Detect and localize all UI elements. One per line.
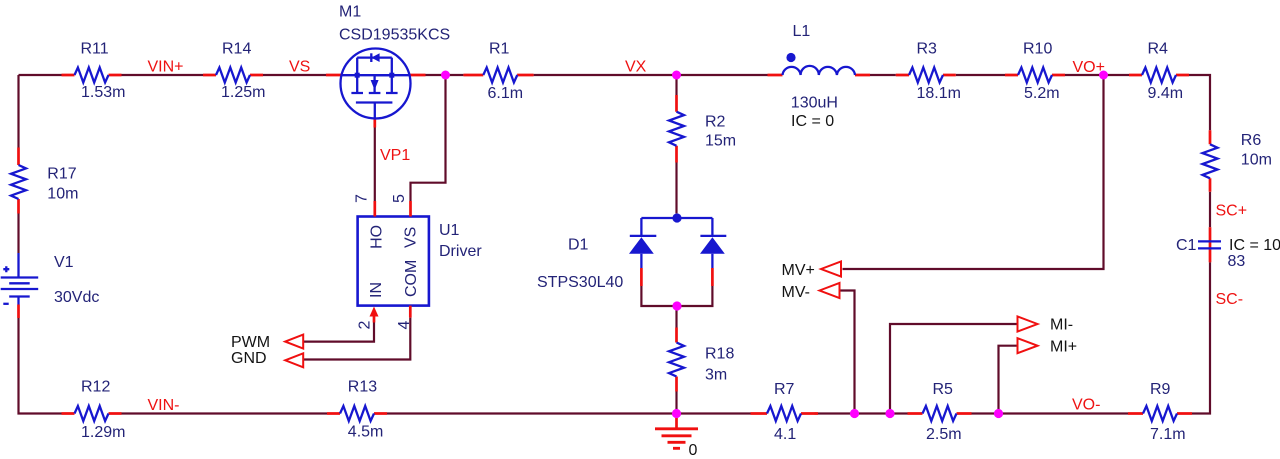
svg-text:HO: HO xyxy=(369,225,386,249)
svg-text:6.1m: 6.1m xyxy=(488,85,524,102)
wire MI- to bottom rail xyxy=(890,324,1018,414)
svg-text:MI+: MI+ xyxy=(1050,339,1077,356)
svg-text:D1: D1 xyxy=(568,237,589,254)
svg-text:10m: 10m xyxy=(1241,152,1272,169)
pin 2 input arrow xyxy=(370,307,379,317)
svg-text:2.5m: 2.5m xyxy=(926,426,962,443)
svg-text:MV+: MV+ xyxy=(782,262,815,279)
svg-text:R7: R7 xyxy=(774,381,795,398)
junction ground node xyxy=(672,409,681,418)
resistor R1 xyxy=(463,41,533,103)
junction MI+ node xyxy=(994,409,1003,418)
wire VP1 gate wire M1 to pin 7 xyxy=(374,128,376,202)
svg-text:VIN-: VIN- xyxy=(148,397,180,414)
wire R5 to R9 xyxy=(972,412,1129,414)
junction MV- node xyxy=(850,409,859,418)
svg-text:R13: R13 xyxy=(348,379,377,396)
svg-text:1.25m: 1.25m xyxy=(221,84,265,101)
wire bottom rail R13 to ground junction xyxy=(387,412,677,414)
svg-text:R17: R17 xyxy=(47,166,76,183)
svg-text:VIN+: VIN+ xyxy=(148,59,184,76)
svg-text:R11: R11 xyxy=(81,41,109,58)
svg-text:IC = 10: IC = 10 xyxy=(1229,237,1280,254)
wire top-left corner xyxy=(19,75,62,148)
wire top rail R14 to M1 xyxy=(263,74,326,76)
svg-text:COM: COM xyxy=(403,260,420,297)
resistor R2 xyxy=(669,95,736,163)
svg-text:0: 0 xyxy=(689,442,698,459)
svg-text:9.4m: 9.4m xyxy=(1148,85,1184,102)
port PWM xyxy=(231,334,303,351)
resistor R17 xyxy=(11,148,78,214)
source V1 xyxy=(1,253,100,318)
junction VS source node xyxy=(441,71,450,80)
svg-text:GND: GND xyxy=(231,350,267,367)
svg-text:IC = 0: IC = 0 xyxy=(791,113,834,130)
wire R2 to D1 xyxy=(675,163,677,214)
svg-text:VP1: VP1 xyxy=(380,147,410,164)
svg-text:V1: V1 xyxy=(54,254,74,271)
wire VX junction to R2 xyxy=(675,75,677,95)
svg-text:7.1m: 7.1m xyxy=(1150,426,1186,443)
junction D1 bottom xyxy=(672,301,681,310)
svg-text:R9: R9 xyxy=(1150,381,1171,398)
wire junction to R1 xyxy=(446,74,464,76)
wire left battery to bottom-left corner xyxy=(19,318,62,414)
wire bottom rail R12 to R13 xyxy=(122,412,328,414)
resistor R6 xyxy=(1203,130,1272,192)
wire R6 to C1 xyxy=(1209,192,1211,227)
wire L1 to R3 xyxy=(870,74,896,76)
svg-text:SC+: SC+ xyxy=(1216,203,1248,220)
junction VO+ node xyxy=(1099,71,1108,80)
transistor M1 xyxy=(326,4,450,128)
wire pin 5 to source junction xyxy=(411,77,446,201)
svg-text:VS: VS xyxy=(403,227,420,248)
resistor R4 xyxy=(1129,41,1189,103)
svg-text:R5: R5 xyxy=(933,381,954,398)
wire top rail R11 to R14 xyxy=(122,74,204,76)
svg-text:U1: U1 xyxy=(439,222,460,239)
wire R7 to R5 xyxy=(815,412,908,414)
svg-text:MV-: MV- xyxy=(782,284,810,301)
svg-text:VO-: VO- xyxy=(1072,397,1100,414)
svg-text:10m: 10m xyxy=(47,186,78,203)
wire D1 to R18 xyxy=(675,306,677,328)
svg-text:1.29m: 1.29m xyxy=(81,424,125,441)
svg-text:R3: R3 xyxy=(917,41,938,58)
wire M1 to junction xyxy=(426,74,446,76)
svg-text:5: 5 xyxy=(391,194,408,203)
capacitor C1 xyxy=(1176,227,1280,270)
svg-text:SC-: SC- xyxy=(1216,291,1244,308)
wire left column R17 to V1 xyxy=(17,214,19,254)
svg-text:R14: R14 xyxy=(222,41,251,58)
svg-text:83: 83 xyxy=(1228,253,1246,270)
resistor R3 xyxy=(896,41,961,103)
resistor R7 xyxy=(751,381,819,443)
wire R1 to VX xyxy=(534,74,677,76)
wire R10 to VO+ junction xyxy=(1065,74,1104,76)
svg-text:15m: 15m xyxy=(705,133,736,150)
svg-text:2: 2 xyxy=(356,321,373,330)
svg-text:R18: R18 xyxy=(705,346,734,363)
resistor R11 xyxy=(62,41,126,102)
port MV+ xyxy=(782,262,842,280)
svg-text:L1: L1 xyxy=(793,23,811,40)
svg-text:CSD19535KCS: CSD19535KCS xyxy=(339,27,450,44)
svg-text:4.1: 4.1 xyxy=(774,426,796,443)
wire ground junction to R7 xyxy=(677,412,751,414)
svg-text:STPS30L40: STPS30L40 xyxy=(537,274,623,291)
svg-text:R1: R1 xyxy=(489,41,510,58)
wire VX to L1 xyxy=(677,74,768,76)
port GND xyxy=(231,350,303,367)
resistor R9 xyxy=(1128,381,1192,443)
svg-text:VS: VS xyxy=(289,59,310,76)
svg-text:1.53m: 1.53m xyxy=(81,84,125,101)
resistor R14 xyxy=(203,41,265,102)
wire R3 to R10 xyxy=(956,74,1005,76)
wire PWM to pin 2 xyxy=(303,323,374,342)
wire R4 to top-right corner xyxy=(1189,75,1210,130)
svg-text:4.5m: 4.5m xyxy=(348,424,384,441)
port MI- xyxy=(1018,317,1074,334)
wire C1 down to bottom-right corner xyxy=(1192,262,1210,413)
resistor R18 xyxy=(669,328,734,392)
junction MI- node xyxy=(885,409,894,418)
svg-text:R12: R12 xyxy=(81,379,110,396)
svg-text:3m: 3m xyxy=(705,367,727,384)
svg-text:7: 7 xyxy=(353,194,370,203)
svg-text:VO+: VO+ xyxy=(1073,59,1105,76)
wire R18 to ground junction xyxy=(675,392,677,414)
svg-text:R4: R4 xyxy=(1148,41,1169,58)
svg-text:4: 4 xyxy=(396,321,413,330)
wire MV- to bottom rail xyxy=(840,291,855,414)
IC U1 driver xyxy=(353,194,482,330)
resistor R12 xyxy=(62,379,126,442)
wire D1 bottom loop xyxy=(641,286,712,306)
svg-text:M1: M1 xyxy=(339,4,361,21)
ground 0 xyxy=(655,414,698,459)
resistor R5 xyxy=(908,381,972,443)
svg-text:VX: VX xyxy=(625,59,647,76)
svg-text:Driver: Driver xyxy=(439,243,482,260)
svg-text:R6: R6 xyxy=(1241,132,1262,149)
svg-text:R2: R2 xyxy=(705,114,726,131)
svg-text:IN: IN xyxy=(368,282,385,298)
diode D1 xyxy=(537,213,726,291)
resistor R10 xyxy=(1005,41,1065,103)
inductor L1 xyxy=(768,23,871,130)
port MI+ xyxy=(1018,338,1078,355)
svg-text:PWM: PWM xyxy=(231,334,270,351)
wire GND to pin 4 xyxy=(303,318,410,360)
port MV- xyxy=(782,283,840,301)
svg-text:C1: C1 xyxy=(1176,237,1197,254)
svg-text:130uH: 130uH xyxy=(791,95,838,112)
svg-text:18.1m: 18.1m xyxy=(917,85,961,102)
svg-text:R10: R10 xyxy=(1023,41,1052,58)
resistor R13 xyxy=(327,379,387,441)
svg-text:30Vdc: 30Vdc xyxy=(54,289,99,306)
svg-text:5.2m: 5.2m xyxy=(1024,85,1060,102)
wire MI+ to bottom rail xyxy=(999,346,1018,414)
svg-text:MI-: MI- xyxy=(1050,317,1073,334)
wire VO+ to R4 xyxy=(1104,74,1130,76)
junction VX node xyxy=(672,71,681,80)
wire MV+ to VO+ node xyxy=(843,77,1104,269)
